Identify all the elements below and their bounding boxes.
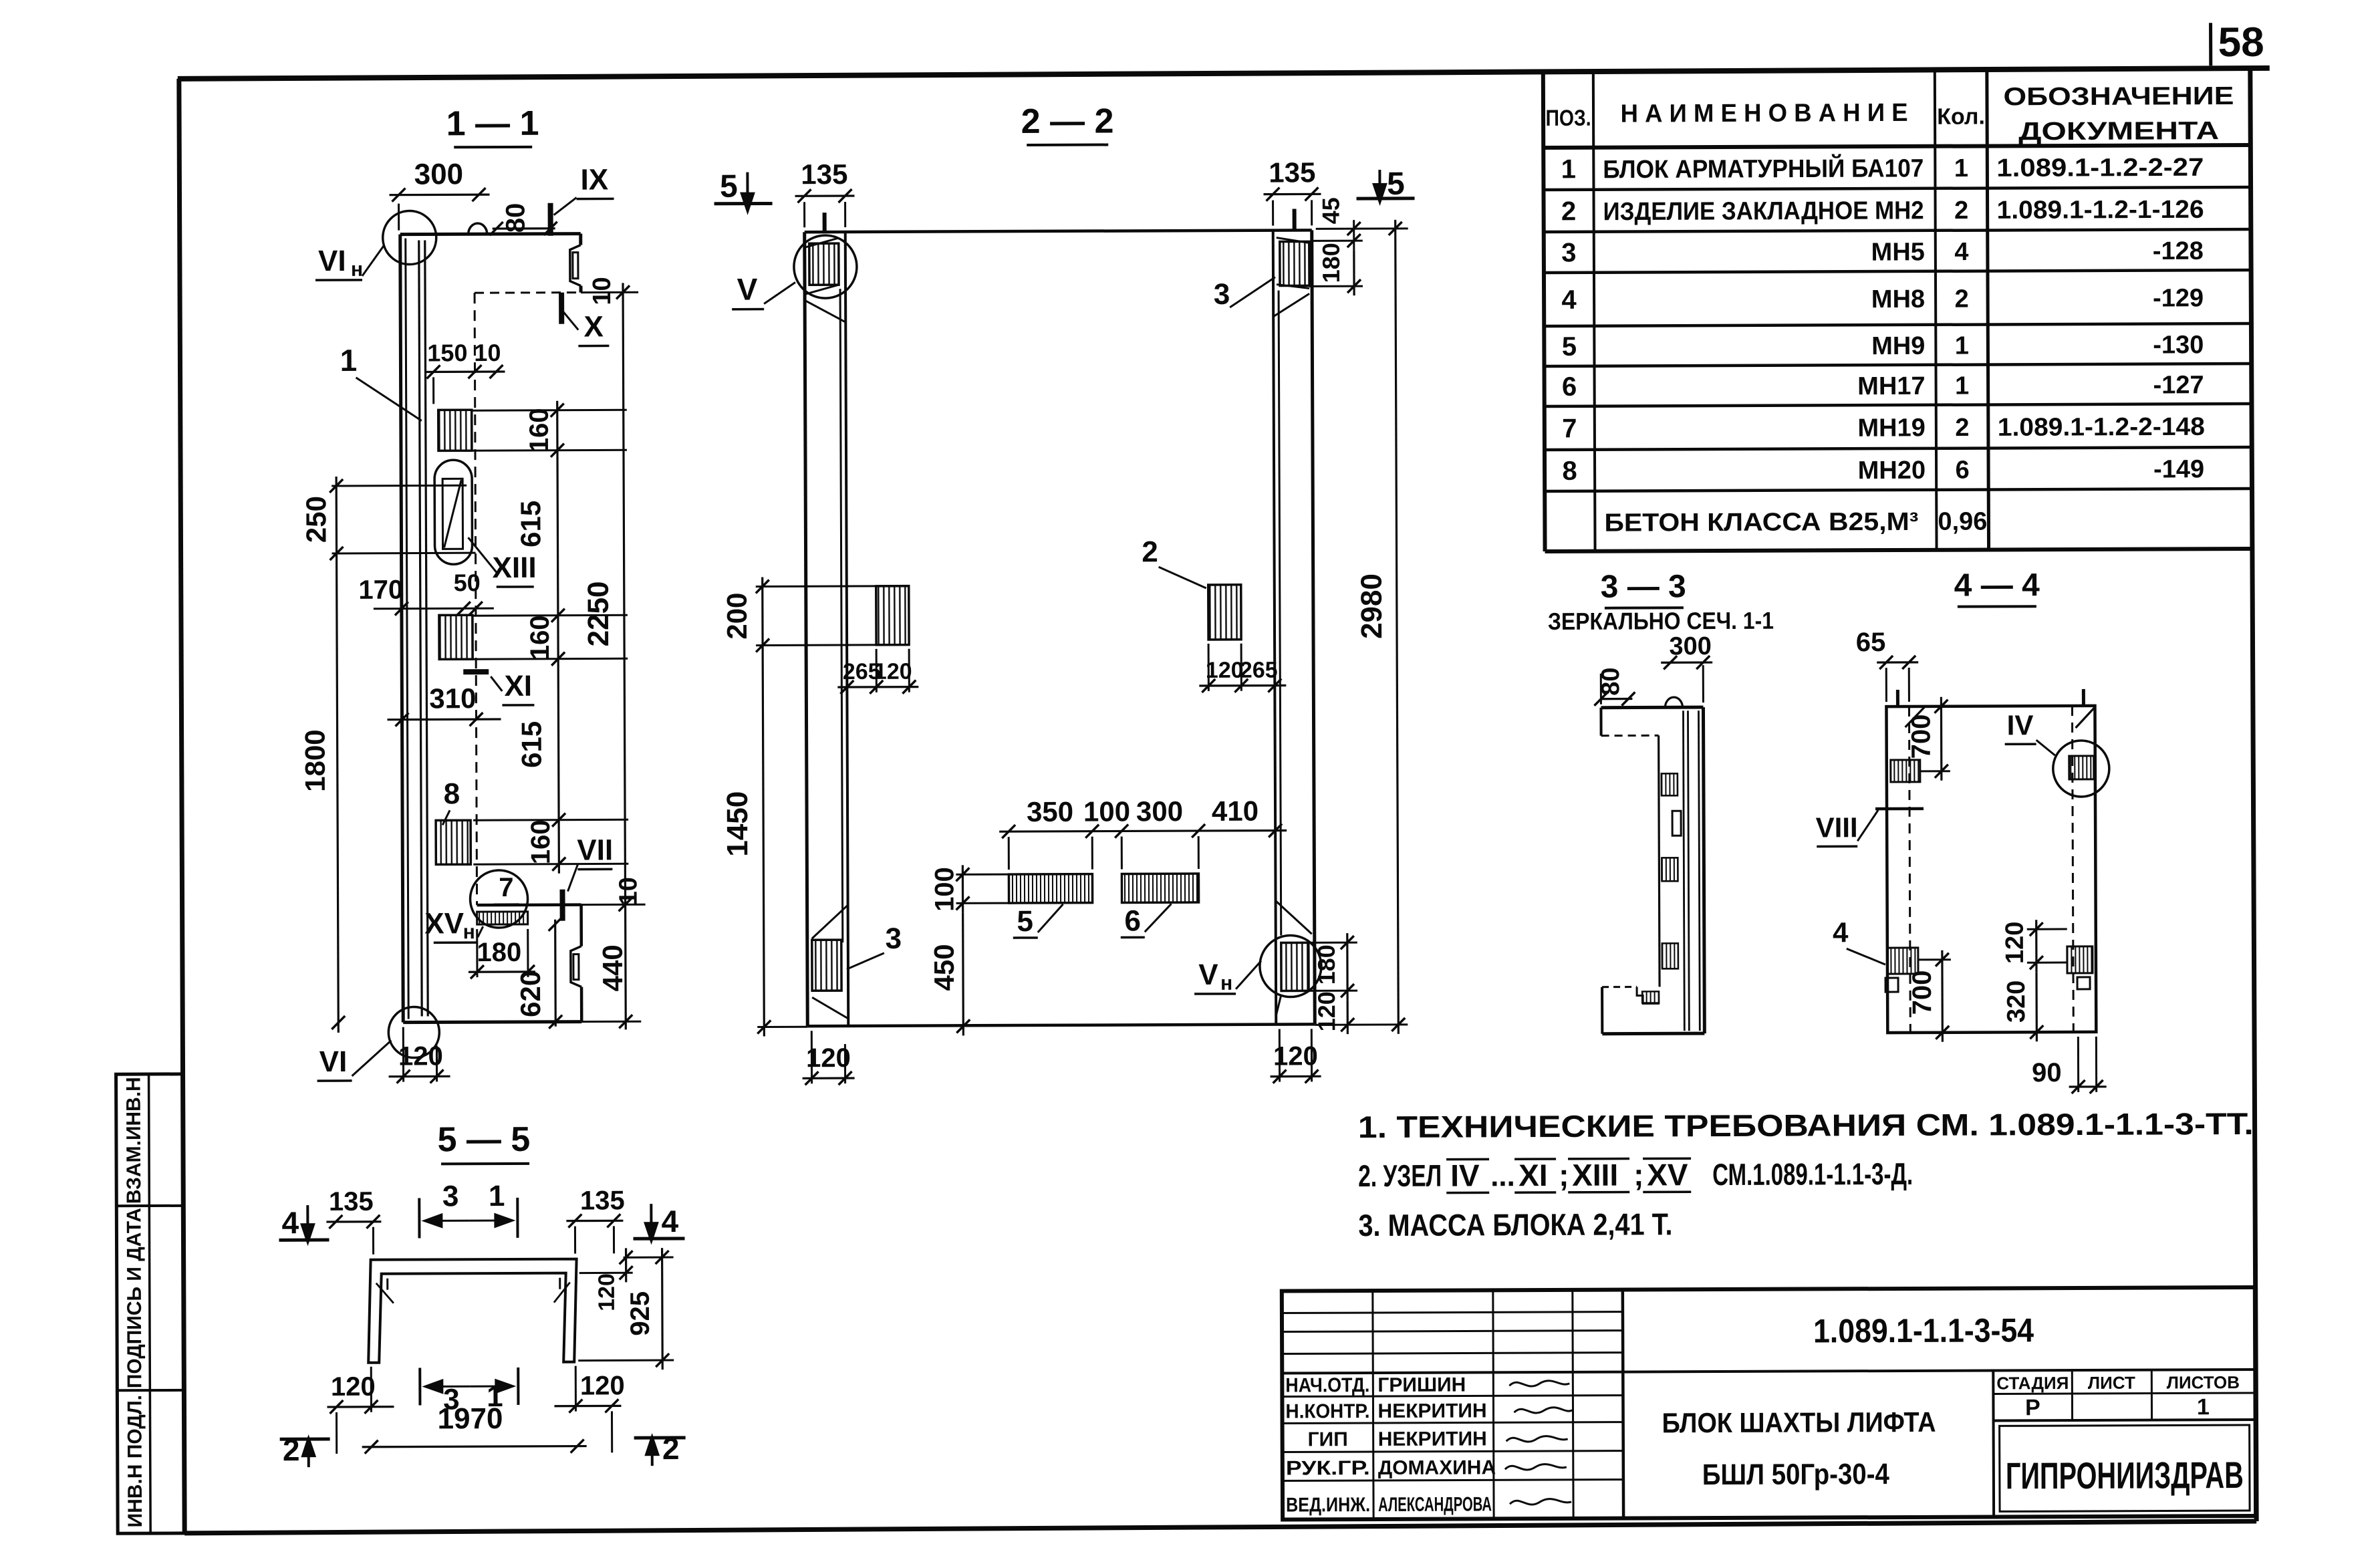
svg-text:НАЧ.ОТД.: НАЧ.ОТД. bbox=[1285, 1374, 1369, 1396]
svg-text:120: 120 bbox=[580, 1371, 625, 1400]
section 1-1 wall outer face double line bbox=[400, 235, 404, 1023]
svg-text:615: 615 bbox=[516, 721, 547, 768]
svg-text:XV: XV bbox=[424, 907, 465, 940]
svg-text:ДОКУМЕНТА: ДОКУМЕНТА bbox=[2018, 117, 2219, 146]
svg-text:4: 4 bbox=[1561, 285, 1577, 315]
svg-text:V: V bbox=[1198, 958, 1218, 991]
section 1-1 anchor plate 8 lower (hatched) bbox=[436, 820, 471, 864]
svg-text:БЕТОН КЛАССА В25,М³: БЕТОН КЛАССА В25,М³ bbox=[1604, 508, 1918, 537]
svg-text:10: 10 bbox=[614, 877, 642, 905]
svg-text:120: 120 bbox=[594, 1273, 620, 1311]
svg-text:170: 170 bbox=[358, 575, 403, 605]
dim 310 bbox=[388, 718, 501, 721]
svg-text:Р: Р bbox=[2025, 1395, 2040, 1420]
svg-text:НЕКРИТИН: НЕКРИТИН bbox=[1378, 1428, 1487, 1450]
svg-text:3: 3 bbox=[1561, 238, 1576, 267]
section 1-1 head bottom edge dashed bbox=[475, 291, 581, 294]
dims 120 265 below right plate bbox=[1199, 684, 1286, 687]
svg-text:-128: -128 bbox=[2153, 237, 2204, 265]
section 3-3 wall left face bbox=[1659, 735, 1660, 987]
section 4-4 left anchor upper (hatched) bbox=[1891, 760, 1920, 782]
section 5-5 channel outline bbox=[368, 1259, 577, 1363]
dim 450 bbox=[962, 912, 964, 1035]
svg-text:ОБОЗНАЧЕНИЕ: ОБОЗНАЧЕНИЕ bbox=[2003, 82, 2234, 111]
section 1-1 head keyway slot bbox=[570, 245, 581, 286]
svg-text:МН17: МН17 bbox=[1857, 372, 1926, 400]
section 2-2 node circle V bbox=[794, 235, 857, 298]
svg-text:135: 135 bbox=[329, 1187, 374, 1216]
svg-text:135: 135 bbox=[580, 1186, 625, 1215]
section 2-2 anchor plate 2 left (hatched) bbox=[876, 586, 909, 645]
svg-text:300: 300 bbox=[1136, 795, 1183, 827]
svg-text:ПОДПИСЬ И ДАТА: ПОДПИСЬ И ДАТА bbox=[123, 1208, 146, 1388]
svg-text:-127: -127 bbox=[2153, 371, 2204, 399]
dims 170 and 50 bbox=[374, 608, 494, 610]
section 3-3 lifting loop bbox=[1665, 697, 1682, 707]
svg-text:МН8: МН8 bbox=[1871, 285, 1925, 313]
svg-text:5: 5 bbox=[1387, 166, 1405, 202]
svg-text:200: 200 bbox=[721, 593, 753, 640]
section 1-1 anchor strip 7 at foot (hatched) bbox=[477, 912, 528, 924]
svg-text:БШЛ 50Гр-30-4: БШЛ 50Гр-30-4 bbox=[1702, 1458, 1890, 1491]
svg-text:10: 10 bbox=[588, 277, 616, 305]
svg-text:6: 6 bbox=[1124, 904, 1141, 937]
section 3-3 slot end bbox=[1672, 811, 1681, 835]
dim 180 bottom right bbox=[1346, 933, 1349, 1000]
dim 10 bottom right bbox=[581, 904, 646, 906]
dim 120 bottom right vertical bbox=[1347, 1000, 1349, 1034]
section 2-2 right column outline bbox=[1312, 230, 1315, 1024]
svg-text:АЛЕКСАНДРОВА: АЛЕКСАНДРОВА bbox=[1378, 1493, 1492, 1516]
svg-text:160: 160 bbox=[525, 615, 555, 660]
title block signatures bbox=[1509, 1381, 1569, 1386]
svg-text:1.089.1-1.2-2-27: 1.089.1-1.2-2-27 bbox=[1996, 154, 2204, 182]
svg-text:IX: IX bbox=[581, 163, 609, 196]
svg-text:100: 100 bbox=[930, 867, 959, 912]
section 3-3 foot outline bbox=[1602, 986, 1637, 988]
title block outer border bbox=[1282, 1287, 2256, 1520]
svg-text:2: 2 bbox=[1954, 285, 1968, 313]
svg-text:1: 1 bbox=[340, 343, 358, 378]
svg-text:5: 5 bbox=[1562, 332, 1577, 362]
svg-text:-149: -149 bbox=[2153, 455, 2204, 483]
svg-text:ГИПРОНИИЗДРАВ: ГИПРОНИИЗДРАВ bbox=[2006, 1454, 2244, 1497]
svg-text:310: 310 bbox=[429, 682, 476, 714]
dims 265 120 below left plate bbox=[837, 686, 918, 688]
svg-text:ВЕД.ИНЖ.: ВЕД.ИНЖ. bbox=[1286, 1494, 1370, 1516]
section 5-5 inner corner marks bbox=[386, 1279, 388, 1290]
svg-text:ГИП: ГИП bbox=[1308, 1428, 1348, 1450]
svg-text:МН5: МН5 bbox=[1871, 238, 1925, 266]
dim 320 right of section 4-4 bbox=[2035, 972, 2038, 1041]
svg-text:1 — 1: 1 — 1 bbox=[446, 104, 539, 144]
dim 90 of section 4-4 bbox=[2069, 1085, 2107, 1087]
svg-text:80: 80 bbox=[501, 203, 531, 233]
svg-text:2: 2 bbox=[1561, 197, 1576, 226]
section 4-4 right anchor lower (hatched) bbox=[2067, 946, 2093, 973]
svg-text:320: 320 bbox=[2002, 981, 2030, 1023]
dim 80 of section 3-3 bbox=[1601, 698, 1632, 700]
svg-text:ПОЗ.: ПОЗ. bbox=[1546, 106, 1591, 131]
svg-text:СМ.1.089.1-1.1-3-Д.: СМ.1.089.1-1.1-3-Д. bbox=[1712, 1156, 1913, 1192]
svg-text:1450: 1450 bbox=[721, 791, 754, 857]
svg-text:700: 700 bbox=[1907, 714, 1936, 759]
svg-text:180: 180 bbox=[477, 938, 521, 967]
svg-text:1: 1 bbox=[1561, 154, 1576, 184]
section 2-2 right foot anchor (hatched) bbox=[1276, 900, 1312, 934]
svg-text:ВЗАМ.ИНВ.Н: ВЗАМ.ИНВ.Н bbox=[123, 1077, 146, 1204]
dim 135 left of 5-5 bbox=[326, 1220, 381, 1223]
svg-text:1: 1 bbox=[1955, 332, 1969, 360]
dim 120 under left column bbox=[803, 1077, 855, 1079]
svg-text:н: н bbox=[463, 921, 475, 943]
svg-text:Н.КОНТР.: Н.КОНТР. bbox=[1285, 1400, 1369, 1422]
svg-text:3 — 3: 3 — 3 bbox=[1601, 569, 1686, 604]
svg-text:XV: XV bbox=[1647, 1157, 1688, 1192]
svg-text:3: 3 bbox=[442, 1180, 459, 1212]
title block grid lines bbox=[1282, 1312, 1623, 1313]
section 3-3 rebar lines bbox=[1683, 710, 1684, 1031]
dim 120 under right column bbox=[1271, 1075, 1321, 1077]
dims 150 and 10 bbox=[425, 370, 505, 373]
dim 620 bbox=[554, 920, 557, 1027]
svg-text:1.089.1-1.1-3-54: 1.089.1-1.1-3-54 bbox=[1813, 1311, 2034, 1349]
svg-text:1.089.1-1.2-1-126: 1.089.1-1.2-1-126 bbox=[1997, 196, 2204, 225]
note 2 overlines for node numbers bbox=[1446, 1158, 1489, 1161]
svg-text:180: 180 bbox=[1313, 944, 1340, 985]
section 1-1 node circle VIn top left bbox=[383, 211, 436, 264]
svg-text:1. ТЕХНИЧЕСКИЕ ТРЕБОВАНИЯ: 1. ТЕХНИЧЕСКИЕ ТРЕБОВАНИЯ СМ. 1.089.1-1.… bbox=[1358, 1106, 2254, 1144]
svg-text:-130: -130 bbox=[2153, 331, 2204, 359]
svg-text:350: 350 bbox=[1027, 796, 1073, 827]
svg-text:45: 45 bbox=[1317, 197, 1345, 224]
svg-text:120: 120 bbox=[331, 1372, 376, 1402]
dim 135 left bbox=[795, 194, 855, 197]
svg-text:5: 5 bbox=[1017, 905, 1033, 938]
section 1-1 foot outline bbox=[477, 903, 581, 906]
svg-text:3: 3 bbox=[1214, 278, 1230, 311]
section 4-4 right anchor small bbox=[2077, 977, 2090, 989]
svg-text:65: 65 bbox=[1856, 628, 1886, 657]
section 2-2 top chord line bbox=[805, 230, 1312, 232]
dim 120 slab thickness bbox=[624, 1257, 674, 1259]
svg-text:1.089.1-1.2-2-148: 1.089.1-1.2-2-148 bbox=[1998, 413, 2205, 442]
svg-text:Кол.: Кол. bbox=[1937, 104, 1985, 130]
svg-text:120: 120 bbox=[806, 1043, 851, 1073]
svg-text:1: 1 bbox=[2197, 1394, 2210, 1420]
svg-text:VII: VII bbox=[577, 833, 613, 866]
section 3-3 anchor end B (hatched) bbox=[1662, 858, 1678, 881]
svg-text:1970: 1970 bbox=[437, 1402, 503, 1435]
section 2-2 rebar outlets at column tops bbox=[823, 213, 827, 232]
dim 120 right of section 4-4 bbox=[2035, 920, 2037, 972]
parts table grid bbox=[1543, 74, 1545, 551]
section 3-3 head outline bbox=[1601, 706, 1703, 710]
section 4-4 right anchor in circle (hatched) bbox=[2069, 756, 2094, 779]
sheet frame border bbox=[178, 68, 2270, 79]
dim 45 right bbox=[1353, 220, 1355, 250]
svg-text:7: 7 bbox=[1562, 414, 1577, 443]
svg-text:2: 2 bbox=[1142, 535, 1158, 568]
svg-text:;: ; bbox=[1559, 1158, 1569, 1192]
svg-text:СТАДИЯ: СТАДИЯ bbox=[1996, 1373, 2069, 1393]
svg-text:150: 150 bbox=[427, 339, 467, 366]
svg-text:90: 90 bbox=[2032, 1058, 2062, 1087]
svg-text:VI: VI bbox=[319, 1045, 348, 1078]
svg-text:МН20: МН20 bbox=[1858, 457, 1926, 485]
svg-text:120: 120 bbox=[2001, 922, 2029, 964]
dim 1450 left bbox=[763, 655, 764, 1037]
svg-text:XIII: XIII bbox=[493, 551, 537, 584]
dim 200 left bbox=[756, 585, 909, 588]
svg-text:VI: VI bbox=[318, 245, 346, 277]
section 2-2 anchor bar 5 (hatched) bbox=[1009, 874, 1092, 903]
dim 120 bottom left of 5-5 bbox=[327, 1406, 394, 1408]
svg-text:50: 50 bbox=[454, 569, 481, 596]
svg-text:7: 7 bbox=[499, 873, 513, 902]
section marks 3 and 1 bottom bbox=[418, 1368, 421, 1406]
svg-text:ИНВ.Н ПОДЛ.: ИНВ.Н ПОДЛ. bbox=[124, 1395, 146, 1528]
svg-text:ЗЕРКАЛЬНО СЕЧ. 1-1: ЗЕРКАЛЬНО СЕЧ. 1-1 bbox=[1548, 607, 1774, 635]
svg-text:-129: -129 bbox=[2153, 284, 2204, 312]
section 3-3 anchor end C (hatched) bbox=[1662, 943, 1678, 968]
svg-text:VIII: VIII bbox=[1816, 811, 1858, 843]
dim 925 height bbox=[578, 1359, 674, 1362]
vertical dim line 250/1800 bbox=[336, 477, 338, 1033]
dim 180 top right bbox=[1353, 250, 1355, 295]
svg-text:700: 700 bbox=[1907, 970, 1937, 1015]
svg-text:XI: XI bbox=[1518, 1158, 1548, 1192]
dim 300 of section 3-3 bbox=[1661, 661, 1712, 663]
svg-text:РУК.ГР.: РУК.ГР. bbox=[1286, 1457, 1370, 1479]
svg-text:...: ... bbox=[1490, 1160, 1515, 1192]
dim 120 bottom right of 5-5 bbox=[554, 1405, 621, 1408]
svg-text:ГРИШИН: ГРИШИН bbox=[1377, 1374, 1466, 1396]
dim 180 at foot bbox=[469, 970, 535, 973]
svg-text:4: 4 bbox=[1954, 238, 1968, 266]
svg-text:6: 6 bbox=[1955, 457, 1969, 485]
svg-text:180: 180 bbox=[1317, 243, 1345, 283]
svg-text:XIII: XIII bbox=[1572, 1158, 1618, 1192]
section 2-2 anchor bar 6 (hatched) bbox=[1121, 874, 1198, 902]
dim 1970 bbox=[362, 1446, 587, 1447]
dim 135 right of 5-5 bbox=[566, 1220, 623, 1222]
svg-text:4: 4 bbox=[282, 1205, 299, 1240]
svg-text:135: 135 bbox=[801, 158, 847, 190]
svg-text:3. МАССА БЛОКА 2,41 Т.: 3. МАССА БЛОКА 2,41 Т. bbox=[1358, 1206, 1672, 1243]
section 2-2 node circle Vn bbox=[1260, 935, 1321, 997]
svg-text:100: 100 bbox=[1083, 795, 1130, 827]
svg-text:440: 440 bbox=[597, 944, 628, 991]
svg-text:IV: IV bbox=[1450, 1158, 1480, 1192]
section 4-4 panel outline bbox=[1886, 706, 2096, 1033]
section 1-1 anchor plate MN8 upper (hatched) bbox=[438, 410, 472, 450]
dim 2980 right bbox=[1396, 220, 1399, 1034]
section 3-3 anchor end A (hatched) bbox=[1662, 773, 1678, 795]
svg-text:160: 160 bbox=[525, 408, 554, 452]
svg-text:1: 1 bbox=[1954, 154, 1968, 182]
dim 700 upper bbox=[1940, 697, 1943, 781]
section 3-3 wall right face double line bbox=[1703, 707, 1704, 1033]
svg-text:НЕКРИТИН: НЕКРИТИН bbox=[1377, 1400, 1486, 1422]
svg-text:0,96: 0,96 bbox=[1938, 507, 1987, 535]
svg-text:620: 620 bbox=[515, 970, 546, 1017]
dims 350 100 300 410 bbox=[999, 831, 1287, 832]
svg-text:ДОМАХИНА: ДОМАХИНА bbox=[1378, 1456, 1496, 1479]
section 1-1 anchor plate middle (hatched) bbox=[439, 615, 473, 659]
section 1-1 slot XIII stadium bbox=[434, 460, 473, 564]
svg-text:10: 10 bbox=[474, 339, 501, 366]
section 2-2 left head anchor V (hatched) bbox=[809, 243, 839, 285]
section 4-4 corner diagonals bbox=[1905, 706, 1925, 727]
svg-text:1800: 1800 bbox=[299, 729, 331, 792]
section marks 3 and 1 top bbox=[418, 1198, 420, 1239]
section 2-2 left foot anchor (hatched) bbox=[812, 905, 848, 938]
section 2-2 bottom chord line bbox=[807, 1024, 1315, 1026]
svg-text:120: 120 bbox=[1313, 991, 1340, 1031]
svg-text:615: 615 bbox=[515, 501, 546, 547]
svg-text:1: 1 bbox=[489, 1180, 505, 1212]
svg-text:5 — 5: 5 — 5 bbox=[437, 1120, 530, 1160]
svg-text:2250: 2250 bbox=[582, 581, 615, 646]
dim 65 of section 4-4 bbox=[1877, 661, 1918, 663]
svg-text:X: X bbox=[583, 310, 604, 343]
section 1-1 node circle VI bottom left bbox=[388, 1007, 439, 1057]
svg-text:IV: IV bbox=[2007, 709, 2034, 741]
svg-text:8: 8 bbox=[1562, 457, 1577, 486]
svg-text:XI: XI bbox=[504, 670, 532, 702]
dim 135 right bbox=[1264, 193, 1321, 196]
svg-text:БЛОК ШАХТЫ ЛИФТА: БЛОК ШАХТЫ ЛИФТА bbox=[1662, 1406, 1936, 1439]
svg-text:4: 4 bbox=[662, 1204, 679, 1239]
section 1-1 lifting loop bbox=[469, 223, 487, 234]
svg-text:2980: 2980 bbox=[1355, 573, 1388, 639]
svg-text:265: 265 bbox=[1240, 658, 1278, 683]
svg-text:58: 58 bbox=[2218, 19, 2264, 66]
dim 250 left with extension lines bbox=[332, 485, 467, 487]
svg-text:410: 410 bbox=[1212, 795, 1259, 827]
svg-text:2: 2 bbox=[1954, 197, 1968, 225]
svg-text:120: 120 bbox=[874, 659, 912, 684]
svg-text:ЛИСТ: ЛИСТ bbox=[2088, 1373, 2135, 1393]
section 4-4 left anchor small bbox=[1885, 978, 1898, 992]
left margin stamp boxes bbox=[116, 1074, 185, 1533]
svg-text:2. УЗЕЛ: 2. УЗЕЛ bbox=[1358, 1158, 1442, 1193]
dim 100 left of bar 5 bbox=[956, 874, 1009, 876]
section 2-2 right head anchor (hatched) bbox=[1280, 241, 1309, 285]
svg-text:250: 250 bbox=[300, 496, 332, 543]
svg-text:5: 5 bbox=[720, 169, 738, 205]
section 1-1 wall inner face dashed bbox=[475, 293, 477, 905]
svg-text:925: 925 bbox=[626, 1291, 655, 1336]
svg-text:4 — 4: 4 — 4 bbox=[1954, 567, 2040, 603]
svg-text:н: н bbox=[351, 259, 363, 281]
section 2-2 anchor plate 2 right (hatched) bbox=[1208, 585, 1241, 640]
svg-text:Н А И М Е Н О В А Н И Е: Н А И М Е Н О В А Н И Е bbox=[1620, 99, 1907, 128]
svg-text:8: 8 bbox=[444, 777, 460, 810]
section 3-3 foot anchor strip (hatched) bbox=[1642, 991, 1659, 1003]
svg-text:300: 300 bbox=[1669, 632, 1712, 660]
svg-text:ЛИСТОВ: ЛИСТОВ bbox=[2167, 1372, 2240, 1392]
section 1-1 head right face bbox=[579, 234, 582, 245]
section 4-4 dashed lines bbox=[1909, 706, 1910, 1033]
dim column 160-615 at x836 bbox=[557, 401, 559, 874]
dim 2250 right bbox=[623, 283, 626, 1029]
svg-text:300: 300 bbox=[414, 158, 464, 190]
title block organization box bbox=[2000, 1425, 2250, 1511]
section 4-4 node circle IV bbox=[2053, 741, 2109, 797]
svg-text:БЛОК АРМАТУРНЫЙ БА107: БЛОК АРМАТУРНЫЙ БА107 bbox=[1603, 152, 1924, 184]
section 1-1 wall top edge bbox=[400, 234, 581, 235]
svg-text:2: 2 bbox=[1955, 414, 1969, 442]
dim 300 top bbox=[390, 193, 490, 196]
section 2-2 left column outline bbox=[805, 232, 808, 1026]
section 1-1 node circle 7 bbox=[470, 870, 527, 928]
svg-text:V: V bbox=[737, 272, 758, 307]
page number 58 with tick bbox=[2209, 23, 2212, 66]
dim 700 lower bbox=[1941, 950, 1944, 1042]
dim 80 top bbox=[493, 227, 555, 230]
svg-text:3: 3 bbox=[885, 922, 902, 955]
svg-text:4: 4 bbox=[1833, 916, 1849, 948]
svg-text:1: 1 bbox=[1955, 372, 1969, 400]
section 1-1 rebar lines of block BA107 bbox=[419, 240, 422, 1016]
svg-text:450: 450 bbox=[928, 944, 960, 991]
section 4-4 left anchor lower (hatched) bbox=[1887, 948, 1918, 974]
dim 10 top right bbox=[581, 291, 638, 293]
svg-text:;: ; bbox=[1633, 1157, 1644, 1192]
svg-text:МН9: МН9 bbox=[1871, 332, 1925, 360]
svg-text:135: 135 bbox=[1269, 156, 1315, 188]
svg-text:6: 6 bbox=[1562, 372, 1577, 402]
svg-text:н: н bbox=[1220, 972, 1232, 995]
svg-text:МН19: МН19 bbox=[1857, 414, 1926, 442]
svg-text:160: 160 bbox=[526, 819, 555, 864]
svg-text:120: 120 bbox=[1206, 658, 1244, 683]
svg-text:2 — 2: 2 — 2 bbox=[1021, 102, 1114, 142]
dim 120 bottom of section 1-1 bbox=[389, 1075, 450, 1078]
section mark 5 top right bbox=[1378, 170, 1381, 193]
svg-text:ИЗДЕЛИЕ ЗАКЛАДНОЕ МН2: ИЗДЕЛИЕ ЗАКЛАДНОЕ МН2 bbox=[1603, 197, 1924, 226]
extension lines for 160/615/2250 dims bbox=[472, 409, 627, 412]
section 4-4 rebar outlets top bbox=[1896, 690, 1899, 706]
